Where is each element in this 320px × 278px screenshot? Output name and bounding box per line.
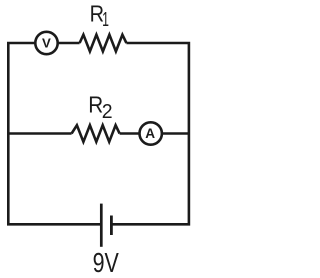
voltmeter V circle xyxy=(35,32,57,54)
svg-text:2: 2 xyxy=(102,101,113,124)
ammeter A circle xyxy=(140,122,162,144)
label R1 xyxy=(90,0,104,27)
svg-text:9V: 9V xyxy=(93,249,120,278)
resistor R2 xyxy=(72,125,120,142)
ammeter letter A xyxy=(145,126,155,141)
svg-text:A: A xyxy=(145,126,155,141)
wire: R1 to top-right corner, right wall, bottom-right run to battery xyxy=(113,43,189,224)
svg-text:V: V xyxy=(42,36,51,51)
label R2 xyxy=(88,91,103,117)
voltmeter letter V xyxy=(42,36,51,51)
battery short plate (negative) xyxy=(110,216,113,236)
battery long plate (positive) xyxy=(100,204,103,247)
label 9V xyxy=(93,249,120,278)
wire: R2 to ammeter xyxy=(120,132,140,135)
wire: ammeter to right wall xyxy=(162,132,189,135)
label R1 subscript 1 xyxy=(102,8,109,31)
wire: middle branch left wall to R2 xyxy=(8,132,71,135)
svg-text:1: 1 xyxy=(102,8,109,31)
wire: voltmeter to R1 xyxy=(58,42,80,45)
wire: top-left segment, left wall, bottom-left run to battery xyxy=(8,43,100,224)
resistor R1 xyxy=(80,35,127,52)
label R2 subscript 2 xyxy=(102,101,113,124)
